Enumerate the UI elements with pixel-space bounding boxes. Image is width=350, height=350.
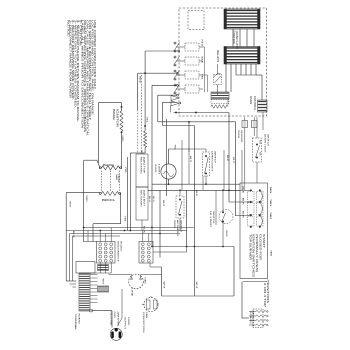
wire bus E xyxy=(70,233,180,235)
svg-text:OVEN: OVEN xyxy=(249,96,251,105)
svg-text:OVEN: OVEN xyxy=(237,130,239,139)
svg-text:SUPPLY: SUPPLY xyxy=(123,317,125,330)
svg-text:MELTDOWN: MELTDOWN xyxy=(140,157,142,174)
svg-text:TOP BURNER: TOP BURNER xyxy=(248,234,250,261)
svg-text:(NORMALLY OPEN): (NORMALLY OPEN) xyxy=(255,234,258,272)
svg-text:SWITCH: SWITCH xyxy=(267,134,269,147)
wire fan feed xyxy=(109,274,132,276)
terminal xyxy=(120,167,122,169)
fan cooling xyxy=(129,274,144,289)
wire bus blk xyxy=(228,113,230,203)
junction xyxy=(144,72,146,74)
svg-text:(QK) TOP: (QK) TOP xyxy=(143,157,145,175)
wire relay out 2 xyxy=(138,72,177,74)
terminal xyxy=(119,192,121,194)
svg-text:RED: RED xyxy=(200,40,202,48)
svg-text:(QK) BOT: (QK) BOT xyxy=(143,190,145,208)
svg-text:GND: GND xyxy=(113,312,115,319)
svg-text:BLK: BLK xyxy=(226,155,228,162)
wire latch xyxy=(174,112,230,114)
oven control board outline xyxy=(179,8,267,116)
svg-text:IGNITION SWITCHES: IGNITION SWITCHES xyxy=(252,234,254,278)
svg-text:OVEN LIGHT: OVEN LIGHT xyxy=(210,151,212,173)
svg-text:YEL: YEL xyxy=(200,74,202,81)
svg-text:BLOCK: BLOCK xyxy=(120,241,122,252)
connector P2 relay header xyxy=(224,47,260,65)
svg-text:BLK: BLK xyxy=(195,190,197,197)
relays K1-K4 xyxy=(174,42,176,44)
switch door actuated xyxy=(176,196,184,218)
wire relay out 4 xyxy=(158,94,177,96)
switches top burner ignition xyxy=(248,191,255,201)
svg-text:FAN: FAN xyxy=(145,312,148,319)
terminal xyxy=(99,192,101,194)
wire xyxy=(150,296,152,298)
wire bus red xyxy=(83,162,85,164)
svg-text:RED: RED xyxy=(85,196,87,203)
junctions xyxy=(83,227,85,229)
switch oven light xyxy=(203,152,210,176)
wire bus wht xyxy=(235,122,237,216)
wire xyxy=(144,148,146,154)
wire relay out 3 xyxy=(152,84,177,86)
svg-text:WHT: WHT xyxy=(102,279,104,286)
wire bake ignitor feed xyxy=(99,102,122,104)
svg-text:CORD: CORD xyxy=(127,317,129,326)
terminal board shell xyxy=(76,262,95,274)
wire coil outputs xyxy=(204,47,206,92)
wire xyxy=(161,267,163,296)
plug supply cord xyxy=(110,328,122,340)
wire xyxy=(121,132,123,168)
connector oven control xyxy=(211,92,229,99)
oven sensor plugs xyxy=(242,121,248,128)
svg-text:SWITCH: SWITCH xyxy=(212,211,214,224)
wire xyxy=(205,149,207,152)
junction xyxy=(144,125,146,127)
resistor bake element xyxy=(102,166,120,170)
wire xyxy=(179,190,181,196)
wire broil feed xyxy=(66,192,100,194)
resistor broil ignitor xyxy=(144,131,147,148)
svg-text:IGNITOR: IGNITOR xyxy=(116,109,118,128)
svg-text:START: START xyxy=(262,234,265,249)
svg-text:NEUTRAL: NEUTRAL xyxy=(110,312,113,328)
fan convection xyxy=(144,298,158,312)
svg-text:CONTROL: CONTROL xyxy=(253,96,255,111)
svg-text:TRIM: TRIM xyxy=(117,174,119,183)
svg-text:BOARD: BOARD xyxy=(78,314,81,325)
svg-text:TAN: TAN xyxy=(269,199,272,207)
wire cord xyxy=(121,289,123,318)
wire bus yel2 xyxy=(126,157,128,231)
svg-text:ACTUATED: ACTUATED xyxy=(176,220,179,237)
coil door lock motor xyxy=(211,105,228,109)
svg-text:BLU: BLU xyxy=(148,196,150,203)
svg-text:IGNITORS: IGNITORS xyxy=(266,283,268,304)
svg-text:WHT: WHT xyxy=(68,202,70,209)
wire bus yel xyxy=(144,73,146,131)
wire feeds xyxy=(229,201,251,203)
wire xyxy=(256,117,258,138)
wire bus A xyxy=(152,183,240,185)
svg-text:BLU: BLU xyxy=(152,196,154,203)
junctions on buses xyxy=(168,183,170,185)
disconnect block xyxy=(97,242,116,264)
connector latch dashed xyxy=(211,100,229,104)
wire relay out 1 xyxy=(145,50,178,52)
wire bus C xyxy=(84,227,195,229)
wire header interconnect xyxy=(232,29,234,47)
svg-text:SPARK: SPARK xyxy=(249,311,252,325)
wire dashed linkage xyxy=(137,75,139,152)
lamp oven light xyxy=(161,164,176,179)
svg-text:(WHITE): (WHITE) xyxy=(116,312,118,327)
svg-text:SENSOR: SENSOR xyxy=(240,130,242,143)
svg-text:WHT: WHT xyxy=(162,200,164,207)
svg-text:OVEN: OVEN xyxy=(154,164,156,173)
wire bus right xyxy=(262,112,264,130)
plug P4 box xyxy=(136,187,148,220)
svg-text:SWITCH: SWITCH xyxy=(214,151,216,164)
svg-text:TAN: TAN xyxy=(269,250,272,257)
svg-text:DOOR LOCK: DOOR LOCK xyxy=(263,134,265,153)
wire bus D xyxy=(66,230,186,232)
svg-text:RED: RED xyxy=(138,76,140,84)
svg-text:MELTDOWN: MELTDOWN xyxy=(140,190,142,207)
svg-text:FAN: FAN xyxy=(143,278,146,285)
wire bus left drops xyxy=(69,234,71,282)
svg-text:TERMINAL: TERMINAL xyxy=(74,314,77,332)
svg-text:CONVECTION: CONVECTION xyxy=(142,312,144,333)
svg-text:RELAYS: RELAYS xyxy=(216,50,219,63)
display dashed box xyxy=(188,11,204,30)
wire bus into board xyxy=(66,280,76,282)
mini connector a xyxy=(98,265,109,271)
wire drops to disconnect xyxy=(99,231,101,242)
connector latch block xyxy=(139,242,153,264)
svg-text:BAKE: BAKE xyxy=(112,109,115,121)
svg-text:(DISPLAY): (DISPLAY) xyxy=(235,31,238,50)
wire broil right xyxy=(120,192,121,194)
wire xyxy=(222,190,224,211)
wire box stubs xyxy=(141,150,143,154)
terminal xyxy=(99,167,101,169)
mini connector b xyxy=(98,286,109,292)
wire disconnect drops xyxy=(99,263,101,273)
svg-text:MODULE: MODULE xyxy=(252,311,254,328)
wire lamp bottom xyxy=(168,179,170,184)
junction xyxy=(121,131,123,133)
resistor broil element xyxy=(102,191,119,195)
svg-text:HI LIMIT: HI LIMIT xyxy=(209,211,211,229)
element dashed box xyxy=(101,171,103,191)
spark module xyxy=(253,309,263,328)
wire cross verticals xyxy=(159,190,161,257)
wire relay out 5 xyxy=(162,101,176,103)
switch hi limit xyxy=(219,210,233,224)
svg-text:LIGHT: LIGHT xyxy=(158,164,160,175)
svg-text:BLK: BLK xyxy=(225,231,227,238)
svg-text:CLOSED FOR: CLOSED FOR xyxy=(259,234,261,261)
wire xyxy=(153,246,234,248)
wire ignitor feed xyxy=(241,282,243,319)
connector P1 control header xyxy=(224,9,260,29)
svg-text:BROIL: BROIL xyxy=(102,198,116,202)
wire neutral xyxy=(91,310,112,312)
ignition switch group box xyxy=(240,183,268,279)
plug P3 box xyxy=(136,154,148,187)
svg-text:2 OR 4 TOP: 2 OR 4 TOP xyxy=(263,283,265,308)
resistor bake ignitor xyxy=(120,111,123,132)
switch door lock relay xyxy=(214,75,222,85)
wire lamp feed xyxy=(168,149,170,164)
svg-text:LINE: LINE xyxy=(131,288,133,298)
wire ignitor bus xyxy=(243,281,268,283)
terminal board stack xyxy=(79,273,90,311)
svg-text:USE COPPER CONDUCTORS ONLY.: USE COPPER CONDUCTORS ONLY. xyxy=(93,20,97,90)
wire bus B xyxy=(148,189,240,191)
svg-text:DISCONNECT: DISCONNECT xyxy=(116,241,118,262)
svg-text:WHT: WHT xyxy=(232,157,234,164)
wire spark feed xyxy=(162,295,235,297)
svg-text:TAN: TAN xyxy=(269,212,272,220)
wire header drops xyxy=(225,64,227,92)
wire bus xyxy=(129,153,131,231)
wire sensor xyxy=(244,117,246,121)
connector arrows xyxy=(171,96,179,101)
svg-text:WHT: WHT xyxy=(195,282,197,290)
svg-text:BLK: BLK xyxy=(72,231,74,239)
wire bake feed xyxy=(84,159,97,161)
svg-text:TAN: TAN xyxy=(269,186,272,194)
svg-text:WHT: WHT xyxy=(163,282,165,290)
switch door lock xyxy=(253,138,262,162)
terminal board taps xyxy=(90,274,98,276)
junction xyxy=(121,106,123,108)
svg-text:BAKE: BAKE xyxy=(103,163,114,167)
connector oven control mate xyxy=(258,100,268,112)
